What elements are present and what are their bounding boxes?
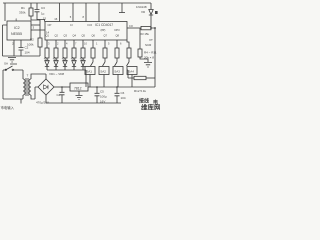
wire IC1 pin8 drop bbox=[85, 3, 87, 22]
ground bbox=[8, 58, 16, 63]
svg-text:C6: C6 bbox=[121, 91, 125, 95]
wire bridge out bbox=[54, 86, 70, 88]
op-amp U1 IC2 NE555 box bbox=[7, 21, 31, 40]
socket CZ1 bbox=[85, 67, 95, 75]
LED VD4 bbox=[71, 57, 76, 70]
svg-text:Q5: Q5 bbox=[82, 34, 86, 38]
svg-text:16: 16 bbox=[54, 17, 58, 21]
diode VD 1N4148 bbox=[136, 3, 153, 26]
resistor R5 bbox=[54, 48, 58, 58]
wire EN pulldown drop bbox=[139, 28, 141, 49]
resistor R11 bbox=[115, 48, 119, 58]
svg-text:1µ: 1µ bbox=[41, 12, 45, 16]
ground bbox=[76, 96, 83, 100]
capacitor C6 bbox=[115, 87, 126, 103]
switch tick SA4 bbox=[127, 62, 130, 66]
svg-text:Q3: Q3 bbox=[64, 34, 68, 38]
svg-text:15: 15 bbox=[43, 16, 47, 20]
svg-text:R3 15k: R3 15k bbox=[140, 32, 149, 36]
regulator 7812 bbox=[70, 83, 88, 91]
svg-text:T: T bbox=[27, 74, 29, 78]
wire IC1 output stubs bbox=[47, 40, 129, 48]
svg-text:470µ/25V: 470µ/25V bbox=[36, 101, 49, 105]
svg-text:1N4148: 1N4148 bbox=[136, 5, 147, 9]
svg-text:Q8: Q8 bbox=[116, 34, 120, 38]
terminal blob bbox=[155, 11, 158, 14]
capacitor C3 bbox=[35, 6, 46, 16]
svg-text:Q7: Q7 bbox=[104, 34, 108, 38]
wire IC2 pin3 to IC1 CP bbox=[31, 29, 45, 31]
resistor R8 bbox=[81, 48, 85, 58]
LED VD2 bbox=[53, 57, 58, 70]
wire regulator ground bbox=[78, 91, 80, 95]
wire socket returns bbox=[90, 75, 132, 88]
svg-text:接线: 接线 bbox=[138, 98, 149, 105]
bridge rectifier bbox=[38, 74, 54, 103]
svg-text:330k: 330k bbox=[19, 11, 26, 15]
svg-text:SCR: SCR bbox=[145, 43, 152, 47]
NC stub bar bbox=[119, 12, 125, 14]
svg-text:R12 5.1k: R12 5.1k bbox=[134, 89, 147, 93]
node C5 bbox=[96, 86, 98, 88]
wire IC2 left pin bbox=[3, 25, 8, 56]
resistor R11b bbox=[127, 48, 131, 58]
resistor R6 bbox=[63, 48, 67, 58]
svg-text:C4: C4 bbox=[57, 93, 61, 97]
resistor R9 bbox=[91, 48, 95, 58]
switch tick SA1 bbox=[91, 62, 94, 66]
ground bbox=[144, 63, 152, 68]
resistor R13 pulldown bbox=[138, 49, 157, 60]
wire top power rail bbox=[3, 2, 151, 4]
wire C3 to IC1 pin15 bbox=[37, 12, 45, 22]
svg-text:C2: C2 bbox=[25, 46, 29, 50]
svg-text:Q4: Q4 bbox=[73, 34, 77, 38]
svg-text:7812: 7812 bbox=[74, 86, 82, 90]
wire R2 to ground rail bbox=[39, 47, 41, 56]
wire R1 top drop bbox=[30, 3, 32, 8]
wire C3 top drop bbox=[36, 3, 38, 10]
switch SA bbox=[3, 62, 23, 71]
wire ground rail left bbox=[3, 55, 41, 57]
wire AC left side bbox=[3, 70, 23, 104]
svg-text:Q2: Q2 bbox=[55, 34, 59, 38]
resistor R10 bbox=[103, 48, 107, 58]
node right rail junction bbox=[150, 27, 152, 29]
svg-text:VT: VT bbox=[149, 38, 153, 42]
wire IC2 pin1 to ground rail bbox=[13, 40, 15, 56]
resistor R12 bbox=[134, 76, 147, 93]
svg-text:CP: CP bbox=[48, 23, 52, 27]
svg-text:Q1: Q1 bbox=[46, 34, 50, 38]
socket CZ2 bbox=[99, 67, 109, 75]
svg-text:C5: C5 bbox=[100, 90, 104, 94]
socket CZ3 bbox=[113, 67, 123, 75]
svg-text:DP3: DP3 bbox=[115, 28, 121, 32]
node C6 bbox=[116, 86, 118, 88]
svg-text:C3: C3 bbox=[41, 6, 45, 10]
svg-text:ICO: ICO bbox=[88, 23, 93, 27]
resistor R1 bbox=[19, 6, 33, 16]
resistor R3 bbox=[140, 26, 151, 36]
svg-text:R2: R2 bbox=[30, 38, 34, 42]
svg-text:CI: CI bbox=[70, 23, 73, 27]
svg-text:电: 电 bbox=[153, 99, 158, 106]
switch tick SA2 bbox=[103, 62, 106, 66]
svg-text:104: 104 bbox=[25, 51, 30, 55]
svg-text:SA4: SA4 bbox=[128, 69, 134, 73]
svg-text:CO: CO bbox=[129, 24, 133, 28]
svg-text:(8P): (8P) bbox=[101, 28, 106, 32]
capacitor C4 bbox=[36, 87, 65, 105]
LED VD5 bbox=[80, 57, 85, 70]
wire R12 right bbox=[146, 77, 155, 79]
wire IC2 pin7 stub bbox=[31, 24, 40, 26]
wire R1 to R2 bbox=[31, 16, 40, 38]
svg-text:SA1: SA1 bbox=[86, 69, 92, 73]
capacitor C2 bbox=[19, 40, 30, 56]
LED VD3 bbox=[62, 57, 67, 70]
resistor R2 bbox=[27, 38, 42, 48]
wire CO stub bbox=[127, 27, 141, 29]
svg-text:104: 104 bbox=[121, 96, 126, 100]
svg-text:R1: R1 bbox=[21, 6, 25, 10]
svg-text:NE555: NE555 bbox=[11, 32, 22, 36]
socket CZ4 bbox=[127, 67, 137, 75]
svg-text:IC1 CD4017: IC1 CD4017 bbox=[95, 23, 113, 27]
svg-text:VD1 ~ VD8: VD1 ~ VD8 bbox=[49, 72, 64, 76]
svg-text:SA2: SA2 bbox=[100, 69, 106, 73]
wire IC1 pin16 drop bbox=[59, 3, 61, 22]
capacitor C5 bbox=[95, 87, 108, 104]
wire LED common bus bbox=[47, 70, 86, 87]
wire NC stub bbox=[121, 3, 123, 13]
svg-text:100µ: 100µ bbox=[100, 95, 107, 99]
wire socket column drops bbox=[93, 58, 129, 62]
svg-text:SA3: SA3 bbox=[114, 69, 120, 73]
watermark red bbox=[138, 98, 161, 112]
svg-text:SA: SA bbox=[4, 62, 8, 66]
svg-text:R4 ~ R11: R4 ~ R11 bbox=[144, 51, 157, 55]
transformer T bbox=[23, 70, 46, 99]
wire IC2 supply drop bbox=[4, 3, 6, 21]
wire to ground bbox=[140, 57, 148, 62]
wire R12 left bbox=[127, 70, 134, 78]
LED VD1 bbox=[44, 57, 49, 70]
svg-text:IC2: IC2 bbox=[14, 26, 20, 30]
IC U1 IC1 CD4017 box bbox=[45, 22, 127, 41]
wire IC1 pin5 drop bbox=[72, 3, 74, 22]
svg-text:Q6: Q6 bbox=[92, 34, 96, 38]
svg-text:市电输入: 市电输入 bbox=[1, 105, 15, 110]
wire right rail bbox=[151, 28, 155, 87]
resistor R7 bbox=[72, 48, 76, 58]
wire 12V output rail bbox=[88, 86, 155, 88]
switch tick SA3 bbox=[115, 62, 118, 66]
resistor R4 bbox=[45, 48, 49, 58]
wire bottom ground rail bbox=[46, 102, 121, 104]
wire IC1 pin10 drop bbox=[98, 3, 100, 22]
